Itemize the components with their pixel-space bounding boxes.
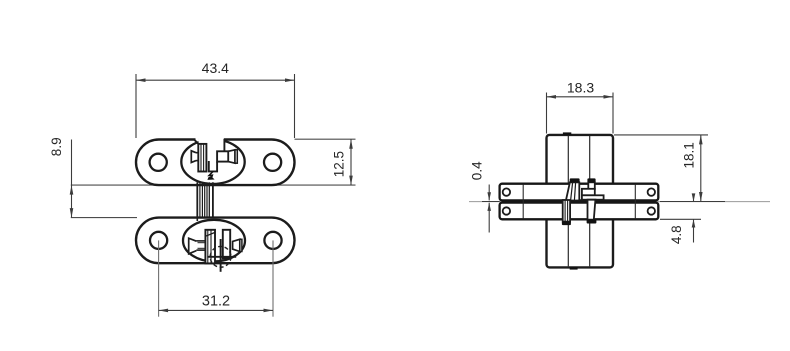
- rivet circle top-left: [503, 188, 510, 195]
- knuckle right cap: [587, 178, 595, 182]
- svg-text:8.9: 8.9: [49, 137, 64, 156]
- knuckle right body: [582, 189, 595, 196]
- notch left chamfer: [194, 140, 198, 144]
- link bar top leaf: [198, 144, 206, 172]
- notch cutout whiteout: [199, 137, 224, 146]
- dimension 12.5: [332, 139, 353, 185]
- knuckle lower bar: [563, 200, 570, 222]
- crosshair vertical: [220, 239, 222, 272]
- top tab: [563, 132, 571, 135]
- link stack between leaves: [196, 182, 198, 220]
- extension line left (8.9 bottom): [71, 217, 137, 219]
- svg-text:18.1: 18.1: [682, 142, 697, 168]
- mount screw left (bottom leaf): [189, 238, 197, 254]
- extension line left (8.9 top): [71, 184, 356, 186]
- dimension 4.8: [660, 193, 701, 244]
- dimension 8.9: [49, 137, 73, 217]
- link bar B (bottom leaf): [223, 230, 230, 259]
- knuckle upper bar: [566, 182, 579, 200]
- center boss bottom leaf: [183, 220, 245, 262]
- mortise body: [547, 135, 614, 268]
- top leaf (side view): [500, 184, 659, 201]
- svg-text:43.4: 43.4: [202, 60, 229, 76]
- bottom leaf plate (plan): [136, 218, 295, 264]
- mount screw right (top leaf): [228, 150, 235, 163]
- dimension 18.1: [614, 135, 725, 202]
- dimension 43.4: [136, 60, 295, 138]
- dimension 18.3: [547, 79, 614, 133]
- screw hole left bottom leaf: [150, 232, 167, 249]
- extension line right (12.5 top): [295, 138, 356, 140]
- rivet circle top-right: [648, 188, 655, 195]
- centerline: [469, 201, 770, 203]
- top leaf plate (plan): [136, 140, 295, 186]
- knuckle lower bar cap: [562, 221, 571, 225]
- knuckle right leg: [588, 200, 596, 220]
- slot line left: [567, 136, 569, 267]
- svg-text:31.2: 31.2: [202, 294, 230, 310]
- mount screw left (top leaf): [191, 151, 196, 163]
- knuckle right foot: [582, 195, 604, 199]
- svg-text:4.8: 4.8: [669, 225, 684, 244]
- svg-text:18.3: 18.3: [567, 79, 594, 95]
- rivet circle bottom-left: [503, 207, 510, 214]
- link bar inner lines: [200, 144, 202, 171]
- detent arrow mark: [207, 171, 214, 180]
- pivot arm step (top leaf): [209, 161, 217, 171]
- dimension 0.4: [469, 161, 499, 233]
- slot line right: [589, 136, 591, 267]
- bottom tab: [570, 267, 578, 269]
- pivot arm body (top leaf): [217, 151, 228, 161]
- crosshair circle (dashed): [210, 246, 231, 267]
- mount screw right (bottom leaf): [233, 239, 240, 251]
- screw hole right bottom leaf: [264, 232, 281, 249]
- tangent line right: [634, 185, 636, 219]
- link bar A diagonal: [205, 232, 215, 236]
- screw hole left top leaf: [150, 154, 167, 171]
- knuckle right neck: [588, 182, 595, 189]
- link bar A (bottom leaf): [205, 230, 215, 264]
- svg-text:12.5: 12.5: [332, 151, 347, 177]
- bottom leaf (side view): [500, 203, 659, 220]
- knuckle right leg cap: [587, 220, 597, 224]
- tangent line left: [522, 185, 524, 219]
- svg-text:0.4: 0.4: [469, 161, 484, 180]
- dimension 31.2: [159, 240, 273, 316]
- screw hole right top leaf: [264, 154, 281, 171]
- notch right wall: [223, 139, 225, 151]
- crosshair horizontal: [207, 256, 236, 258]
- center boss top leaf: [181, 140, 244, 184]
- link entering bottom boss: [196, 218, 198, 221]
- knuckle upper bar cap: [570, 178, 580, 182]
- rivet circle bottom-right: [648, 207, 655, 214]
